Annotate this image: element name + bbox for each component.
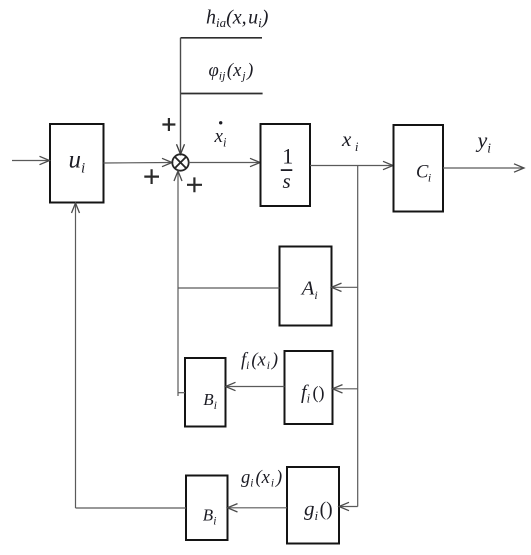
wire top vertical into summer	[180, 38, 182, 154]
wire A_i output to feedback line	[178, 287, 280, 289]
plus sign left input	[144, 169, 159, 184]
svg-text:1: 1	[282, 144, 293, 169]
wire B_i output to feedback line	[178, 392, 185, 394]
wire feedback vertical into summer bottom	[177, 171, 179, 396]
block integrator 1/s	[261, 124, 311, 206]
summer junction circle-cross	[172, 154, 188, 170]
svg-text:gi(xi): gi(xi)	[241, 468, 282, 490]
wire left feedback vertical into u_i	[75, 203, 77, 508]
wire second input bar phi	[181, 93, 263, 95]
wire g_i to B_i arrow	[229, 507, 288, 509]
block g_i()	[287, 467, 339, 544]
wire f_i to B_i arrow	[227, 386, 285, 388]
block B_i first	[185, 358, 226, 427]
plus sign bottom input	[187, 177, 202, 192]
block u_i	[50, 124, 104, 203]
wire tap to f_i input	[334, 388, 358, 390]
wire x_i tap vertical	[357, 166, 359, 507]
svg-text:φij(xj): φij(xj)	[209, 61, 254, 83]
plus sign top input	[162, 118, 175, 131]
svg-text:fi(): fi()	[301, 382, 325, 406]
wire output arrow	[443, 167, 523, 169]
wire tap corner to g_i input	[340, 506, 358, 508]
wire top input bar h	[181, 37, 263, 39]
block B_i second	[186, 476, 228, 541]
wire external input arrow	[12, 160, 49, 162]
wire summer to integrator	[189, 162, 260, 164]
wire B_i output left	[76, 507, 187, 509]
wire integrator to C_i	[310, 165, 393, 167]
wire u_i to summer	[104, 162, 172, 165]
svg-text:s: s	[283, 169, 291, 193]
block f_i()	[285, 351, 333, 424]
block A_i	[280, 247, 332, 326]
block C_i	[394, 125, 444, 212]
wire tap to A_i input	[333, 286, 358, 288]
